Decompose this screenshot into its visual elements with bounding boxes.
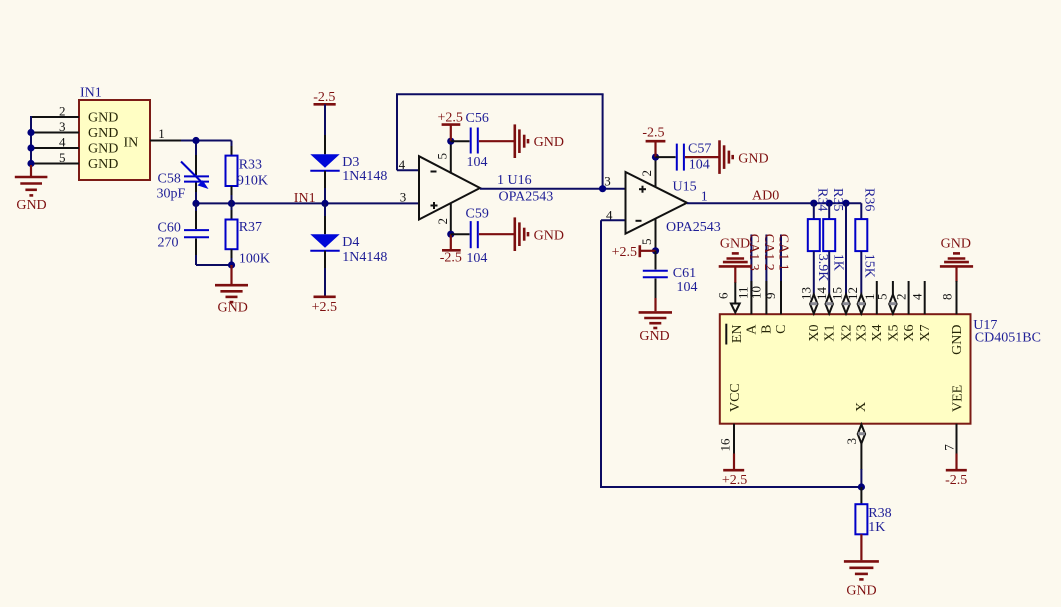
junction dots bus	[27, 129, 34, 136]
svg-text:3.9K: 3.9K	[815, 254, 830, 282]
ground GND above EN (flipped)	[719, 236, 752, 283]
svg-text:C61: C61	[673, 266, 696, 281]
resistor R35	[823, 188, 845, 295]
svg-text:X6: X6	[902, 325, 917, 342]
svg-text:GND: GND	[846, 584, 876, 599]
svg-text:-2.5: -2.5	[945, 473, 967, 488]
ground GND above pin8 (flipped)	[940, 236, 973, 282]
junction dot R33/node	[228, 200, 235, 207]
pin C stub	[780, 281, 782, 314]
resistor R37	[226, 203, 271, 266]
resistor R34	[808, 188, 830, 295]
svg-text:5: 5	[639, 239, 654, 246]
junction dot C58/node	[192, 200, 199, 207]
wire U16 feedback loop	[396, 94, 604, 188]
svg-text:GND: GND	[950, 325, 965, 355]
svg-text:2: 2	[639, 170, 654, 177]
wire net A	[750, 235, 752, 297]
wire pin1	[150, 140, 182, 142]
wire D4 to +2.5	[324, 251, 326, 269]
svg-text:6: 6	[716, 292, 731, 299]
wire X2 direct	[845, 203, 847, 295]
svg-text:X4: X4	[870, 325, 885, 342]
svg-text:R33: R33	[239, 158, 262, 173]
svg-text:3: 3	[844, 438, 859, 445]
svg-text:GND: GND	[88, 157, 118, 172]
wire pin3	[32, 132, 79, 134]
junction dot X0	[810, 200, 817, 207]
svg-text:IN1: IN1	[294, 191, 316, 206]
power +2.5 at pin16	[722, 454, 747, 488]
svg-text:13: 13	[799, 287, 814, 300]
svg-text:CD4051BC: CD4051BC	[975, 330, 1041, 345]
svg-text:16: 16	[718, 438, 733, 452]
svg-text:1 U16: 1 U16	[497, 173, 532, 188]
wire X pin to node	[860, 444, 862, 471]
diode D4	[310, 234, 387, 265]
capacitor C59	[451, 207, 489, 267]
ground GND below R38	[844, 534, 879, 598]
ground GND connector	[15, 165, 48, 213]
svg-text:-2.5: -2.5	[642, 126, 664, 141]
power +2.5 at U15 pin5	[612, 245, 656, 260]
pin A stub	[750, 281, 752, 314]
junction dot U15 pin2	[652, 154, 659, 161]
pin 16 stub	[733, 424, 735, 455]
svg-text:GND: GND	[639, 329, 669, 344]
svg-text:1N4148: 1N4148	[342, 250, 387, 265]
svg-text:R38: R38	[868, 506, 891, 521]
pin X1 diamond	[826, 295, 833, 314]
svg-text:IN: IN	[124, 136, 139, 151]
junction dot R38 node	[858, 483, 865, 490]
capacitor C58 (variable)	[157, 162, 210, 202]
wire feedback bottom	[601, 486, 861, 488]
svg-text:9: 9	[763, 293, 778, 300]
pin 5 lead U15	[655, 219, 657, 251]
ground GND at C56 (rotated)	[479, 124, 564, 158]
wire U16 output	[480, 188, 626, 190]
wire pin4	[32, 147, 79, 149]
svg-text:104: 104	[677, 280, 698, 295]
svg-text:+2.5: +2.5	[722, 473, 747, 488]
pin name EN with overline	[726, 324, 745, 345]
capacitor C57	[656, 141, 712, 172]
svg-text:15: 15	[830, 287, 845, 300]
pin X7 stub	[924, 281, 926, 314]
capacitor C60	[158, 203, 210, 265]
wire -2.5 to D3	[324, 104, 326, 136]
svg-text:AD0: AD0	[752, 189, 779, 204]
pin 7 stub VEE	[956, 424, 958, 455]
wire net C	[780, 235, 782, 297]
junction dot pin1/C58	[192, 137, 199, 144]
svg-text:1K: 1K	[868, 520, 885, 535]
svg-text:X0: X0	[807, 325, 822, 342]
svg-text:910K: 910K	[237, 174, 268, 189]
svg-text:GND: GND	[941, 236, 971, 251]
svg-text:X3: X3	[855, 325, 870, 342]
pin 2 lead U16	[450, 204, 452, 235]
svg-text:X5: X5	[886, 325, 901, 342]
wire U15 pin4 horizontal	[601, 219, 626, 221]
svg-text:OPA2543: OPA2543	[666, 220, 721, 235]
svg-text:GND: GND	[218, 301, 248, 316]
power +2.5 at U16 pin5	[437, 110, 462, 141]
wire node IN1 horizontal	[196, 202, 419, 204]
wire net B	[765, 235, 767, 297]
ground GND below C61	[639, 298, 672, 344]
pin 3 X diamond	[858, 425, 865, 444]
svg-text:GND: GND	[88, 111, 118, 126]
wire pin5	[32, 163, 79, 165]
svg-text:X7: X7	[918, 325, 933, 342]
svg-text:104: 104	[467, 155, 488, 170]
svg-text:7: 7	[941, 444, 956, 451]
svg-text:R36: R36	[861, 188, 876, 211]
svg-text:1N4148: 1N4148	[342, 169, 387, 184]
svg-text:C: C	[774, 325, 789, 334]
junction dot X1	[826, 200, 833, 207]
pin 2 lead U15	[655, 157, 657, 187]
svg-text:X1: X1	[823, 325, 838, 342]
svg-text:+2.5: +2.5	[437, 110, 462, 125]
svg-text:R37: R37	[239, 220, 262, 235]
pin X5 stub and diamond	[889, 281, 896, 314]
wire pin4 U16	[397, 169, 419, 171]
svg-text:3: 3	[604, 174, 611, 189]
svg-text:VEE: VEE	[951, 385, 966, 412]
svg-text:OPA2543: OPA2543	[499, 189, 554, 204]
svg-text:104: 104	[466, 251, 487, 266]
junction dot output node	[599, 185, 606, 192]
junction dot diode node	[321, 200, 328, 207]
wire node to D4	[324, 203, 326, 217]
power -2.5 at U15 pin2	[642, 126, 665, 158]
svg-text:GND: GND	[534, 229, 564, 244]
svg-text:EN: EN	[730, 325, 745, 344]
svg-text:14: 14	[814, 287, 829, 301]
capacitor C61	[643, 251, 698, 299]
diode D3	[310, 154, 387, 184]
svg-text:30pF: 30pF	[157, 186, 186, 201]
svg-text:C59: C59	[466, 207, 489, 222]
op-amp U15	[626, 172, 721, 235]
svg-text:R34: R34	[815, 188, 830, 211]
multiplexer U17	[720, 314, 1041, 424]
svg-text:104: 104	[689, 158, 710, 173]
svg-text:5: 5	[875, 294, 890, 301]
svg-text:U15: U15	[673, 179, 697, 194]
wire D3 to node	[324, 171, 326, 189]
svg-text:GND: GND	[738, 151, 768, 166]
power -2.5 at U16 pin2	[440, 234, 462, 265]
power +2.5 below D4	[312, 297, 337, 315]
ground GND at C59 (rotated)	[479, 217, 564, 251]
svg-text:12: 12	[845, 287, 860, 300]
svg-text:B: B	[760, 325, 775, 334]
svg-text:8: 8	[940, 294, 955, 301]
junction dot U15 pin5	[652, 247, 659, 254]
pin EN stub	[734, 283, 736, 304]
svg-text:+2.5: +2.5	[312, 300, 337, 315]
junction dot pin5	[447, 138, 454, 145]
svg-text:D4: D4	[342, 235, 359, 250]
wire U15 output AD0	[687, 202, 861, 204]
svg-text:CA1 1: CA1 1	[776, 234, 791, 271]
pin X4 stub	[876, 281, 878, 314]
svg-text:CA1 2: CA1 2	[761, 234, 776, 271]
svg-text:2: 2	[435, 218, 450, 225]
svg-text:R35: R35	[830, 188, 845, 211]
svg-text:VCC: VCC	[728, 383, 743, 412]
junction dot pin2	[447, 231, 454, 238]
svg-text:100K: 100K	[239, 252, 270, 267]
pin X0 diamond	[810, 295, 817, 314]
connector IN1	[79, 86, 150, 181]
svg-text:-2.5: -2.5	[440, 250, 462, 265]
svg-text:IN1: IN1	[80, 86, 102, 101]
resistor R36	[855, 188, 876, 295]
svg-text:5: 5	[435, 153, 450, 160]
resistor R38	[855, 487, 891, 535]
svg-text:GND: GND	[534, 135, 564, 150]
svg-text:1: 1	[158, 126, 165, 141]
junction dot X2	[842, 200, 849, 207]
pin B stub	[765, 281, 767, 314]
power -2.5 at pin7	[945, 454, 967, 488]
ground GND at C57 (rotated)	[685, 140, 769, 174]
svg-text:2: 2	[894, 294, 909, 301]
wire U15 pin4 feedback vertical	[600, 220, 602, 488]
capacitor C56	[451, 111, 489, 170]
svg-text:15K: 15K	[861, 254, 876, 278]
wire gnd bus	[30, 116, 32, 167]
svg-text:270: 270	[158, 235, 179, 250]
wire C58 top lead	[195, 141, 197, 157]
pin X6 stub	[908, 281, 910, 314]
junction dot bottom	[228, 261, 235, 268]
svg-text:10: 10	[748, 286, 763, 299]
svg-text:4: 4	[910, 293, 925, 300]
svg-text:3: 3	[400, 190, 407, 205]
svg-text:X2: X2	[839, 325, 854, 342]
wire pin2	[32, 116, 79, 118]
svg-text:X: X	[854, 402, 869, 412]
resistor R33	[226, 141, 269, 204]
pin X2 diamond	[842, 295, 849, 314]
svg-text:-2.5: -2.5	[313, 90, 335, 105]
svg-text:1K: 1K	[831, 254, 846, 271]
op-amp U16	[419, 156, 553, 219]
svg-text:A: A	[745, 324, 760, 335]
svg-text:C60: C60	[158, 221, 181, 236]
power -2.5 above D3	[313, 90, 335, 105]
svg-text:D3: D3	[342, 155, 359, 170]
pin X3 diamond	[858, 295, 865, 314]
pin EN arrow	[731, 304, 740, 313]
svg-text:GND: GND	[88, 126, 118, 141]
svg-text:C57: C57	[688, 141, 711, 156]
wire C58 bottom lead	[195, 182, 197, 193]
pin GND stub	[956, 281, 958, 314]
svg-text:C58: C58	[158, 172, 181, 187]
svg-text:+2.5: +2.5	[612, 245, 637, 260]
wire bottom C60-R37	[196, 264, 232, 266]
svg-text:GND: GND	[88, 142, 118, 157]
svg-text:GND: GND	[720, 236, 750, 251]
svg-text:GND: GND	[16, 198, 46, 213]
ground GND below R37	[215, 265, 248, 316]
svg-text:C56: C56	[466, 111, 489, 126]
pin 5 lead U16	[450, 141, 452, 173]
